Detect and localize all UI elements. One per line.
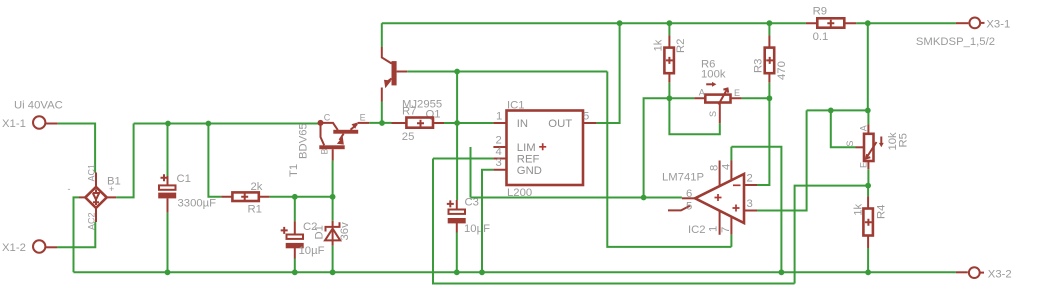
- junction V- at rail: [779, 269, 785, 275]
- svg-text:IC2: IC2: [688, 224, 706, 236]
- junction C1 bottom: [165, 269, 171, 275]
- svg-text:REF: REF: [517, 154, 540, 166]
- svg-text:0.1: 0.1: [813, 31, 829, 43]
- transistor Q1 MJ2955: [382, 23, 442, 123]
- svg-text:S: S: [845, 141, 855, 147]
- wire T1 base lead: [332, 161, 334, 197]
- wire bridge minus to ground rail: [74, 197, 80, 272]
- wire R1 feed from DC line: [208, 124, 221, 197]
- svg-text:D1: D1: [314, 225, 326, 239]
- svg-text:B: B: [320, 148, 330, 154]
- junction C3 bottom: [454, 269, 460, 275]
- svg-text:X3-1: X3-1: [986, 18, 1010, 30]
- wire R6 wiper to R2 node: [669, 98, 719, 134]
- svg-text:2: 2: [747, 172, 753, 184]
- resistor R4: [853, 186, 888, 273]
- wire R1 to base node: [270, 196, 333, 198]
- junction C1 top: [165, 121, 171, 127]
- svg-text:10µF: 10µF: [299, 245, 325, 257]
- svg-text:3: 3: [747, 198, 753, 210]
- svg-text:R3: R3: [753, 59, 765, 73]
- svg-text:X1-1: X1-1: [2, 118, 26, 130]
- svg-text:X3-2: X3-2: [988, 268, 1012, 280]
- svg-text:+: +: [109, 184, 114, 194]
- svg-text:OUT: OUT: [548, 118, 572, 130]
- svg-text:8: 8: [709, 165, 721, 171]
- svg-text:36v: 36v: [339, 222, 351, 241]
- svg-text:7: 7: [720, 227, 732, 233]
- svg-text:IC1: IC1: [507, 99, 525, 111]
- junction R2 bottom node: [667, 95, 673, 101]
- svg-text:1k: 1k: [853, 204, 865, 216]
- junction sense at wiper: [828, 108, 834, 114]
- svg-text:4: 4: [496, 146, 502, 158]
- wire ground rail (bottom): [74, 271, 956, 273]
- resistor R7: [392, 105, 445, 142]
- junction R4 at rail: [865, 269, 871, 275]
- junction IN node: [454, 120, 460, 126]
- wire raw DC line to T1 collector: [134, 123, 321, 125]
- junction Q1 emitter node: [379, 120, 385, 126]
- wire pin2 to R3 node: [757, 98, 769, 185]
- svg-text:4: 4: [720, 164, 732, 170]
- junction rail at R3: [767, 20, 773, 26]
- wire LIM to op-amp out: [471, 147, 682, 198]
- capacitor C3: [447, 196, 490, 272]
- junction base node D1: [330, 194, 336, 200]
- junction C2 bottom: [292, 269, 298, 275]
- wire bridge plus up to DC line: [116, 124, 133, 198]
- bridge rectifier B1: [68, 164, 121, 230]
- resistor R3: [753, 23, 789, 98]
- wire IN node vertical (base to C3): [456, 72, 458, 201]
- wire Q1 base line: [407, 71, 607, 73]
- wire R2 node to R6 A: [669, 97, 694, 99]
- svg-text:C1: C1: [177, 173, 191, 185]
- junction C2 top: [292, 194, 298, 200]
- resistor R2: [653, 23, 688, 98]
- junction R1 top: [206, 121, 212, 127]
- transistor T1 BDV65: [288, 112, 369, 177]
- svg-text:-: -: [68, 184, 71, 194]
- wire R7 to IC1 IN: [444, 122, 493, 124]
- wire OUT pin to top rail: [597, 23, 620, 123]
- capacitor C2: [281, 197, 325, 272]
- connector X3-1: [956, 18, 1010, 31]
- connector X1-2: [2, 240, 57, 254]
- wire sense line: [807, 23, 868, 110]
- svg-text:IN: IN: [517, 118, 528, 130]
- wire op-amp V- to ground rail: [731, 147, 781, 272]
- svg-text:5: 5: [686, 200, 692, 212]
- trimmer R5: [845, 110, 910, 185]
- svg-text:BDV65: BDV65: [298, 123, 310, 159]
- trimmer R6: [694, 59, 741, 124]
- wire REF return line: [433, 159, 795, 284]
- svg-text:R5: R5: [898, 133, 910, 147]
- junction R5/R4 node: [865, 183, 871, 189]
- svg-text:E: E: [360, 112, 366, 122]
- op-amp IC2 LM741P: [662, 147, 757, 247]
- svg-text:6: 6: [686, 188, 692, 200]
- svg-text:GND: GND: [517, 165, 542, 177]
- wire top output rail: [382, 22, 956, 24]
- svg-text:25: 25: [402, 131, 415, 143]
- junction op-amp output node: [641, 195, 647, 201]
- svg-text:C: C: [324, 112, 331, 122]
- junction GND at rail: [479, 269, 485, 275]
- wire op-amp V+ supply: [607, 72, 731, 247]
- svg-text:3300µF: 3300µF: [178, 198, 217, 210]
- svg-text:E: E: [858, 162, 868, 168]
- wire X1-1 to bridge AC1: [58, 124, 95, 173]
- resistor R9: [806, 6, 856, 43]
- junction base line to IN node: [454, 69, 460, 75]
- wire REF pin: [433, 158, 493, 160]
- svg-text:R4: R4: [876, 205, 888, 219]
- svg-text:1k: 1k: [653, 39, 665, 51]
- svg-text:2k: 2k: [251, 181, 263, 193]
- svg-text:2: 2: [496, 134, 502, 146]
- wire GND pin drop: [482, 170, 493, 272]
- svg-text:AC1: AC1: [87, 164, 97, 182]
- wire X1-2 to bridge AC2: [57, 222, 95, 247]
- svg-text:S: S: [708, 111, 718, 117]
- wire pin3 to sense line: [757, 110, 807, 210]
- junction sense at R5: [865, 108, 871, 114]
- wire R5 wiper to sense line: [831, 110, 856, 147]
- svg-text:5: 5: [583, 110, 589, 122]
- junction rail at OUT riser: [617, 20, 623, 26]
- svg-text:R2: R2: [675, 39, 687, 53]
- svg-text:E: E: [734, 88, 740, 98]
- svg-text:3: 3: [496, 157, 502, 169]
- capacitor C1: [158, 124, 216, 273]
- wire R6 E to R3 node: [742, 97, 770, 99]
- zener diode D1: [314, 197, 352, 272]
- svg-text:A: A: [699, 88, 705, 98]
- wire T1 emitter to R7 node: [369, 122, 391, 124]
- connector X3-2: [956, 267, 1012, 280]
- svg-text:LM741P: LM741P: [662, 171, 704, 183]
- junction rail at sense riser: [865, 20, 871, 26]
- svg-text:R7: R7: [402, 105, 416, 117]
- svg-text:AC2: AC2: [87, 212, 97, 230]
- wire R5/R4 node to REF drop: [795, 186, 869, 284]
- svg-text:R1: R1: [248, 203, 262, 215]
- svg-text:Ui 40VAC: Ui 40VAC: [14, 99, 63, 111]
- svg-text:10µF: 10µF: [464, 223, 490, 235]
- junction rail at R2: [667, 20, 673, 26]
- junction R3 bottom node: [767, 95, 773, 101]
- svg-text:T1: T1: [288, 164, 300, 177]
- svg-text:R9: R9: [813, 6, 827, 18]
- svg-text:1: 1: [707, 226, 719, 232]
- resistor R1: [221, 181, 270, 215]
- svg-text:A: A: [858, 125, 868, 131]
- svg-text:100k: 100k: [701, 69, 726, 81]
- svg-text:SMKDSP_1,5/2: SMKDSP_1,5/2: [916, 36, 995, 48]
- svg-text:1: 1: [496, 110, 502, 122]
- svg-text:470: 470: [776, 61, 788, 80]
- junction D1 bottom: [330, 269, 336, 275]
- voltage regulator IC1 L200: [493, 99, 596, 199]
- svg-text:LIM: LIM: [517, 142, 536, 154]
- wire R2 node down to op-amp out line: [644, 98, 670, 197]
- svg-text:X1-2: X1-2: [2, 242, 26, 254]
- connector X1-1: [2, 116, 58, 130]
